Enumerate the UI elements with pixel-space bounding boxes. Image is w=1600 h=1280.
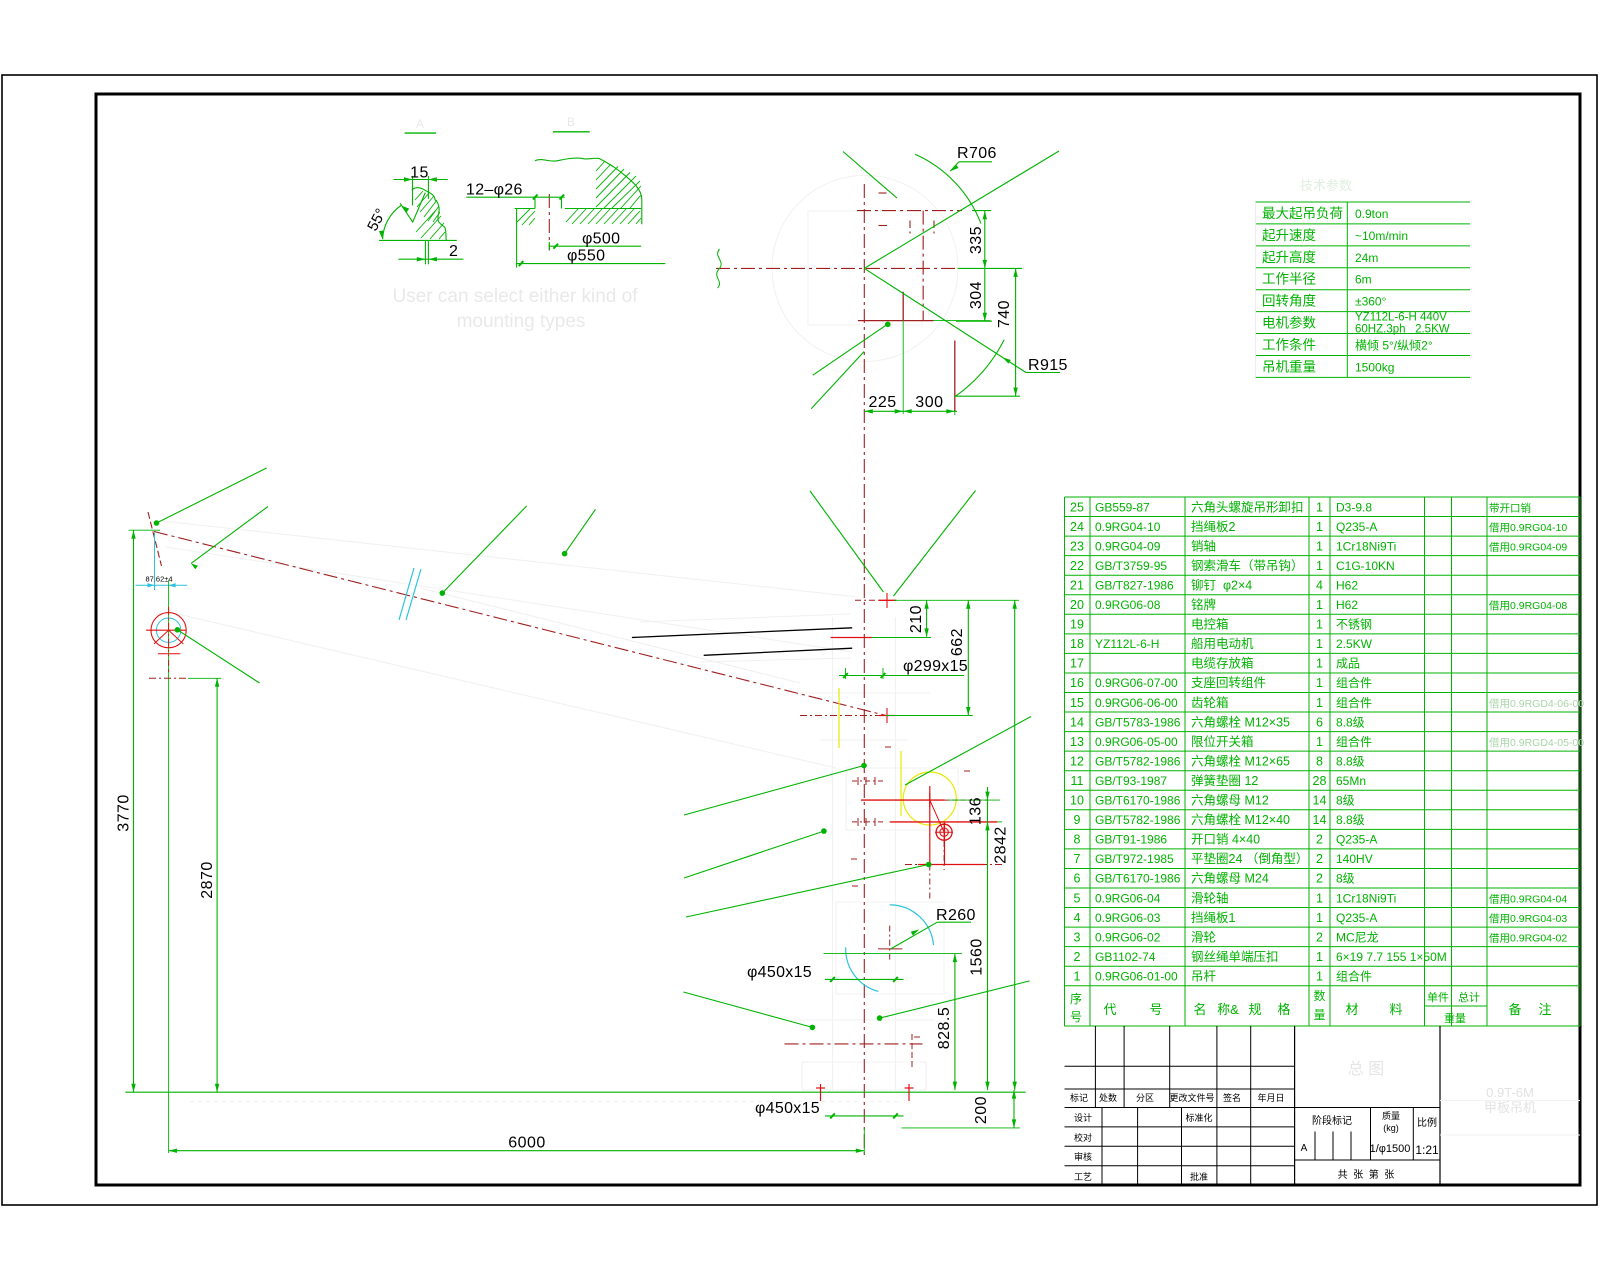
boom tip cross	[148, 512, 162, 566]
boom axis centerline	[154, 532, 886, 716]
svg-text:借用0.9RGD4-06-00: 借用0.9RGD4-06-00	[1489, 698, 1584, 710]
plan leader junction dot	[885, 322, 891, 328]
svg-text:1Cr18Ni9Ti: 1Cr18Ni9Ti	[1336, 891, 1396, 905]
pin hub circles	[936, 824, 952, 840]
svg-text:H62: H62	[1336, 598, 1358, 612]
svg-text:YZ112L-6-H 440V: YZ112L-6-H 440V	[1355, 312, 1447, 324]
svg-text:1: 1	[1316, 735, 1323, 749]
svg-text:14: 14	[1313, 794, 1327, 808]
svg-text:GB/T827-1986: GB/T827-1986	[1095, 578, 1174, 592]
svg-text:15: 15	[410, 165, 429, 182]
svg-text:共 张 第 张: 共 张 第 张	[1338, 1168, 1395, 1181]
plan sector line lower / R915 leader	[864, 268, 1026, 372]
svg-text:6m: 6m	[1355, 273, 1372, 287]
dim 304	[984, 268, 986, 321]
svg-text:借用0.9RG04-04: 借用0.9RG04-04	[1489, 893, 1567, 905]
svg-text:225: 225	[868, 394, 896, 411]
plan sector line upper	[864, 151, 1059, 268]
svg-text:R706: R706	[957, 145, 997, 162]
svg-text:(kg): (kg)	[1383, 1123, 1399, 1133]
svg-text:年月日: 年月日	[1257, 1092, 1284, 1103]
svg-text:借用0.9RG04-09: 借用0.9RG04-09	[1489, 541, 1567, 553]
svg-text:φ500: φ500	[582, 231, 620, 248]
svg-text:0.9RG06-03: 0.9RG06-03	[1095, 911, 1161, 925]
svg-text:23: 23	[1070, 539, 1084, 553]
flange: dim phi550	[517, 263, 666, 265]
weld detail: 55 deg arc	[383, 206, 401, 240]
svg-text:H62: H62	[1336, 578, 1358, 592]
svg-text:8: 8	[1074, 833, 1081, 847]
svg-text:19: 19	[1070, 618, 1084, 632]
boom break marks (cyan)	[399, 568, 414, 620]
weld detail: dim 2	[398, 258, 463, 260]
svg-text:挡绳板2: 挡绳板2	[1191, 520, 1236, 534]
ghost gearbox	[846, 768, 958, 830]
svg-text:13: 13	[1070, 735, 1084, 749]
flange: dim phi500	[550, 245, 642, 247]
svg-text:吊机重量: 吊机重量	[1262, 359, 1316, 374]
svg-text:料: 料	[1389, 1002, 1402, 1017]
dim phi450x15 upper	[825, 978, 904, 980]
svg-text:9: 9	[1074, 813, 1081, 827]
dim 662	[967, 600, 969, 715]
wire rope leader	[191, 507, 268, 564]
R706 label	[950, 162, 959, 171]
svg-text:0.9RG06-02: 0.9RG06-02	[1095, 930, 1161, 944]
dim 225 / 300	[864, 410, 957, 412]
svg-text:号: 号	[1070, 1010, 1082, 1024]
weld detail: dim 15	[393, 179, 447, 181]
svg-text:210: 210	[908, 605, 925, 633]
plan horizontal centerline	[716, 267, 958, 269]
svg-text:弹簧垫圈 12: 弹簧垫圈 12	[1191, 773, 1258, 788]
svg-text:~10m/min: ~10m/min	[1355, 229, 1408, 243]
svg-text:平垫圈24 （倒角型）: 平垫圈24 （倒角型）	[1191, 851, 1308, 866]
svg-text:滑轮: 滑轮	[1191, 930, 1216, 944]
svg-text:铆钉 φ2×4: 铆钉 φ2×4	[1191, 577, 1252, 592]
svg-text:1/φ1500: 1/φ1500	[1370, 1143, 1411, 1155]
svg-text:规: 规	[1248, 1002, 1261, 1017]
svg-text:代: 代	[1103, 1002, 1116, 1017]
svg-text:GB/T5782-1986: GB/T5782-1986	[1095, 813, 1181, 827]
svg-text:65Mn: 65Mn	[1336, 774, 1366, 788]
flange: bolt hole edges	[534, 196, 536, 209]
svg-text:组合件: 组合件	[1336, 734, 1372, 749]
flange: top freehand outline	[535, 158, 599, 161]
svg-text:吊杆: 吊杆	[1191, 969, 1217, 983]
svg-text:1: 1	[1316, 969, 1323, 983]
plan callout leaders	[813, 324, 887, 375]
R915 label	[1026, 372, 1060, 374]
boom tip callout dot	[154, 520, 160, 526]
svg-text:六角螺栓 M12×40: 六角螺栓 M12×40	[1191, 812, 1290, 827]
boom pivot cross	[800, 715, 900, 717]
boom callout leaders	[440, 590, 446, 596]
svg-text:7: 7	[1074, 852, 1081, 866]
dim 200	[1013, 1090, 1015, 1128]
section label A underline	[405, 132, 437, 134]
svg-text:8.8级: 8.8级	[1336, 754, 1365, 768]
svg-text:GB/T5782-1986: GB/T5782-1986	[1095, 754, 1181, 768]
motor outline (black)	[632, 628, 852, 638]
sheave lower red dashes	[158, 653, 180, 655]
svg-text:16: 16	[1070, 676, 1084, 690]
svg-text:2: 2	[1316, 852, 1323, 866]
R260 center cross	[889, 926, 891, 962]
svg-text:1: 1	[1316, 950, 1323, 964]
svg-text:YZ112L-6-H: YZ112L-6-H	[1095, 637, 1159, 651]
svg-text:0.9RG04-09: 0.9RG04-09	[1095, 539, 1161, 553]
svg-text:335: 335	[968, 226, 985, 254]
svg-text:24m: 24m	[1355, 251, 1378, 265]
title block grid	[1123, 1026, 1125, 1108]
svg-text:A: A	[416, 117, 424, 131]
svg-text:2: 2	[449, 243, 458, 260]
svg-text:0.9RG06-06-00: 0.9RG06-06-00	[1095, 696, 1178, 710]
dim 2870	[149, 677, 188, 679]
svg-text:开口销 4×40: 开口销 4×40	[1191, 833, 1260, 847]
svg-text:GB/T93-1987: GB/T93-1987	[1095, 774, 1167, 788]
svg-text:备: 备	[1508, 1002, 1521, 1017]
flange: hatch plate right	[566, 209, 578, 222]
svg-text:标准化: 标准化	[1185, 1112, 1212, 1123]
svg-text:φ450x15: φ450x15	[747, 964, 812, 981]
svg-text:2: 2	[1316, 930, 1323, 944]
mast center below deck	[863, 1128, 865, 1154]
svg-text:带开口销: 带开口销	[1489, 501, 1531, 514]
svg-text:6000: 6000	[508, 1135, 546, 1152]
svg-text:1: 1	[1316, 500, 1323, 514]
svg-text:总计: 总计	[1458, 990, 1480, 1004]
gear output centerline	[905, 864, 1005, 866]
svg-text:8: 8	[1316, 754, 1323, 768]
dim phi450x15 lower	[825, 1115, 904, 1117]
ghost slew circle (plan)	[772, 175, 958, 361]
svg-text:R915: R915	[1028, 357, 1068, 374]
svg-text:1: 1	[1316, 696, 1323, 710]
svg-text:分区: 分区	[1136, 1093, 1154, 1103]
svg-text:8.8级: 8.8级	[1336, 813, 1365, 827]
inner border frame	[96, 94, 1580, 1185]
svg-text:六角螺母 M12: 六角螺母 M12	[1191, 794, 1269, 808]
dim phi299x15	[839, 675, 964, 677]
spec table grid	[1255, 201, 1470, 203]
dim 828.5	[954, 954, 956, 1091]
mast top extension line	[894, 599, 1019, 601]
svg-text:工艺: 工艺	[1074, 1172, 1092, 1182]
svg-text:14: 14	[1313, 813, 1327, 827]
dim 210	[926, 600, 928, 637]
small offset dim (cyan)	[135, 584, 187, 586]
svg-text:4: 4	[1316, 578, 1323, 592]
svg-text:1: 1	[1316, 559, 1323, 573]
hook rope extension line	[168, 580, 170, 1153]
svg-text:0.9T-6M: 0.9T-6M	[1486, 1085, 1534, 1100]
svg-text:8.8级: 8.8级	[1336, 715, 1365, 729]
svg-text:钢丝绳单端压扣: 钢丝绳单端压扣	[1191, 950, 1279, 964]
svg-text:D3-9.8: D3-9.8	[1336, 500, 1372, 514]
svg-text:材: 材	[1345, 1002, 1358, 1017]
R260 arc (cyan)	[890, 905, 934, 945]
svg-text:22: 22	[1070, 559, 1084, 573]
svg-text:φ299x15: φ299x15	[903, 658, 968, 675]
weld detail: web cap	[412, 188, 427, 191]
svg-text:1: 1	[1316, 911, 1323, 925]
svg-text:1560: 1560	[969, 938, 986, 976]
pivot callout V leaders	[810, 491, 883, 592]
svg-text:限位开关箱: 限位开关箱	[1191, 734, 1254, 749]
svg-text:136: 136	[968, 797, 985, 825]
svg-text:注: 注	[1538, 1002, 1551, 1017]
base flange centerline	[785, 1043, 923, 1045]
svg-text:电缆存放箱: 电缆存放箱	[1191, 656, 1254, 671]
mast top cross	[878, 599, 896, 601]
svg-text:6: 6	[1074, 872, 1081, 886]
svg-text:0.9RG06-01-00: 0.9RG06-01-00	[1095, 969, 1178, 983]
svg-text:校对: 校对	[1074, 1132, 1092, 1143]
svg-text:60HZ.3ph 2.5KW: 60HZ.3ph 2.5KW	[1355, 324, 1450, 336]
ghost motor body	[640, 614, 850, 622]
flange: plate top surface	[565, 208, 642, 210]
winch callout leaders	[861, 763, 867, 769]
drum circle (yellow)	[903, 772, 956, 825]
svg-text:0.9RG04-10: 0.9RG04-10	[1095, 520, 1161, 534]
svg-text:2: 2	[1316, 872, 1323, 886]
svg-text:批准: 批准	[1190, 1171, 1208, 1182]
svg-text:304: 304	[968, 281, 985, 309]
ghost mast tube	[832, 617, 834, 1090]
dim 136	[987, 787, 989, 835]
svg-text:1: 1	[1316, 598, 1323, 612]
svg-text:12–φ26: 12–φ26	[466, 182, 523, 199]
svg-text:船用电动机: 船用电动机	[1191, 637, 1254, 651]
svg-text:4: 4	[1074, 911, 1081, 925]
svg-text:铭牌: 铭牌	[1191, 597, 1216, 612]
pivot extension line	[886, 715, 973, 717]
section label B underline	[553, 131, 590, 133]
svg-text:起升速度: 起升速度	[1262, 228, 1316, 243]
svg-text:2842: 2842	[993, 826, 1010, 864]
sheave axis cyan centerline	[154, 533, 156, 591]
svg-text:工作条件: 工作条件	[1262, 337, 1316, 353]
svg-text:662: 662	[949, 628, 966, 656]
svg-text:1: 1	[1316, 520, 1323, 534]
weld detail: hatch upper	[415, 191, 445, 239]
svg-text:借用0.9RG04-03: 借用0.9RG04-03	[1489, 913, 1567, 925]
rope path (yellow)	[838, 688, 840, 748]
svg-text:3: 3	[1074, 930, 1081, 944]
svg-text:不锈钢: 不锈钢	[1336, 618, 1372, 632]
svg-text:审核: 审核	[1074, 1151, 1092, 1162]
R915 arc	[954, 340, 1004, 397]
weld detail: bottom plate line	[379, 239, 457, 241]
svg-text:C1G-10KN: C1G-10KN	[1336, 559, 1395, 573]
svg-text:1: 1	[1316, 539, 1323, 553]
svg-text:21: 21	[1070, 578, 1084, 592]
sheave circle	[151, 613, 186, 648]
flange: hole centerline	[548, 194, 550, 251]
svg-text:1Cr18Ni9Ti: 1Cr18Ni9Ti	[1336, 539, 1396, 553]
svg-text:24: 24	[1070, 520, 1084, 534]
svg-text:0.9ton: 0.9ton	[1355, 207, 1388, 221]
svg-text:六角螺母 M24: 六角螺母 M24	[1191, 872, 1269, 886]
R706 arc	[915, 154, 981, 223]
mast vertical centerline	[863, 184, 865, 1158]
svg-text:销轴: 销轴	[1191, 538, 1216, 553]
weld detail: root gap lines	[424, 240, 426, 264]
gear axis red line	[890, 821, 998, 823]
svg-text:18: 18	[1070, 637, 1084, 651]
svg-text:GB/T5783-1986: GB/T5783-1986	[1095, 715, 1181, 729]
svg-text:10: 10	[1070, 794, 1084, 808]
svg-text:φ550: φ550	[567, 248, 605, 265]
svg-text:1: 1	[1316, 618, 1323, 632]
winch upper centerline crosses	[852, 780, 886, 782]
svg-text:GB1102-74: GB1102-74	[1095, 950, 1156, 964]
ghost base plate	[802, 1062, 926, 1090]
svg-text:MC尼龙: MC尼龙	[1336, 930, 1379, 944]
svg-text:φ450x15: φ450x15	[755, 1100, 820, 1117]
svg-text:8级: 8级	[1336, 794, 1355, 808]
svg-text:8级: 8级	[1336, 872, 1355, 886]
svg-text:总 图: 总 图	[1348, 1060, 1384, 1078]
svg-text:6×19 7.7 155 1×50M: 6×19 7.7 155 1×50M	[1336, 950, 1447, 964]
svg-text:设计: 设计	[1074, 1112, 1092, 1123]
svg-text:名: 名	[1193, 1002, 1206, 1017]
svg-text:2870: 2870	[199, 861, 216, 899]
svg-text:28: 28	[1313, 774, 1327, 788]
svg-text:数: 数	[1313, 988, 1325, 1003]
R260 label	[891, 922, 937, 949]
plan ext line at center level	[958, 267, 1023, 269]
svg-text:组合件: 组合件	[1336, 968, 1372, 983]
svg-text:±360°: ±360°	[1355, 295, 1387, 309]
svg-text:GB/T91-1986: GB/T91-1986	[1095, 833, 1167, 847]
svg-text:六角螺栓 M12×65: 六角螺栓 M12×65	[1191, 753, 1290, 768]
svg-text:成品: 成品	[1336, 657, 1360, 671]
svg-text:比例: 比例	[1417, 1116, 1437, 1129]
flange: fillet outline right	[599, 158, 642, 224]
flange: label 12-phi26	[466, 196, 564, 198]
flange: hatch ring section	[517, 161, 641, 225]
svg-text:GB/T6170-1986: GB/T6170-1986	[1095, 872, 1181, 886]
svg-text:单件: 单件	[1427, 991, 1449, 1004]
svg-text:2: 2	[1316, 833, 1323, 847]
svg-text:mounting types: mounting types	[457, 311, 586, 332]
dim 1560	[987, 822, 989, 1090]
deck baseline	[125, 1091, 1025, 1093]
svg-text:借用0.9RGD4-05-00: 借用0.9RGD4-05-00	[1489, 737, 1584, 749]
svg-text:GB/T3759-95: GB/T3759-95	[1095, 559, 1167, 573]
sheave callout	[175, 627, 181, 633]
svg-text:1: 1	[1316, 676, 1323, 690]
svg-text:回转角度: 回转角度	[1262, 294, 1316, 309]
svg-text:1: 1	[1316, 657, 1323, 671]
svg-text:12: 12	[1070, 754, 1084, 768]
svg-text:5: 5	[1074, 891, 1081, 905]
break squiggle	[717, 249, 721, 288]
svg-text:称&: 称&	[1217, 1002, 1239, 1017]
svg-text:借用0.9RG04-10: 借用0.9RG04-10	[1489, 522, 1567, 534]
svg-text:15: 15	[1070, 696, 1084, 710]
svg-text:0.9RG06-04: 0.9RG06-04	[1095, 891, 1161, 905]
svg-text:挡绳板1: 挡绳板1	[1191, 911, 1236, 925]
svg-text:6: 6	[1316, 715, 1323, 729]
weld detail: hatch lower	[416, 210, 436, 232]
svg-text:25: 25	[1070, 500, 1084, 514]
svg-text:A: A	[1301, 1143, 1308, 1154]
svg-text:14: 14	[1070, 715, 1084, 729]
svg-text:号: 号	[1149, 1002, 1162, 1017]
svg-text:组合件: 组合件	[1336, 695, 1372, 710]
svg-text:GB/T6170-1986: GB/T6170-1986	[1095, 794, 1181, 808]
svg-text:2.5KW: 2.5KW	[1336, 637, 1373, 651]
svg-text:0.9RG06-07-00: 0.9RG06-07-00	[1095, 676, 1178, 690]
flange: hatch plate left	[517, 209, 530, 222]
svg-text:Q235-A: Q235-A	[1336, 833, 1377, 847]
winch axis red line	[861, 799, 945, 801]
svg-text:重量: 重量	[1444, 1011, 1466, 1025]
svg-text:甲板吊机: 甲板吊机	[1484, 1100, 1536, 1115]
svg-text:钢索滑车（带吊钩）: 钢索滑车（带吊钩）	[1191, 558, 1304, 573]
BOM header weight split	[1425, 1005, 1488, 1007]
weld detail: wavy right edge	[426, 191, 446, 240]
svg-text:序: 序	[1070, 991, 1082, 1006]
motor axis red line	[831, 637, 872, 639]
svg-text:3770: 3770	[116, 794, 133, 832]
svg-text:处数: 处数	[1099, 1092, 1117, 1103]
svg-text:140HV: 140HV	[1336, 852, 1373, 866]
svg-text:电控箱: 电控箱	[1191, 617, 1229, 632]
svg-text:300: 300	[915, 394, 943, 411]
svg-text:17: 17	[1070, 657, 1084, 671]
svg-text:200: 200	[973, 1096, 990, 1124]
gearbox red verticals	[929, 786, 931, 865]
small red marks	[851, 858, 857, 860]
svg-text:齿轮箱: 齿轮箱	[1191, 695, 1229, 710]
svg-text:工作半径: 工作半径	[1262, 272, 1316, 287]
svg-text:GB/T972-1985: GB/T972-1985	[1095, 852, 1174, 866]
svg-text:0.9RG06-08: 0.9RG06-08	[1095, 598, 1161, 612]
svg-text:最大起吊负荷: 最大起吊负荷	[1262, 206, 1343, 221]
dim 2842	[1014, 600, 1016, 1090]
svg-text:标记: 标记	[1070, 1092, 1088, 1103]
svg-text:1:21: 1:21	[1415, 1143, 1439, 1157]
svg-text:11: 11	[1071, 774, 1084, 788]
svg-text:量: 量	[1313, 1008, 1325, 1022]
svg-text:滑轮轴: 滑轮轴	[1191, 890, 1229, 905]
svg-text:Q235-A: Q235-A	[1336, 520, 1377, 534]
svg-text:六角螺栓 M12×35: 六角螺栓 M12×35	[1191, 714, 1290, 729]
flange: left edge	[516, 209, 518, 268]
svg-text:2: 2	[1074, 950, 1081, 964]
svg-text:横倾 5°/纵倾2°: 横倾 5°/纵倾2°	[1355, 339, 1433, 353]
svg-text:GB559-87: GB559-87	[1095, 500, 1150, 514]
svg-text:User can select either kind of: User can select either kind of	[392, 286, 638, 307]
svg-text:更改文件号: 更改文件号	[1169, 1092, 1214, 1103]
BOM grid	[1065, 496, 1581, 498]
svg-text:技术参数: 技术参数	[1300, 178, 1352, 193]
dim 740	[1015, 268, 1017, 396]
svg-text:六角头螺旋吊形卸扣: 六角头螺旋吊形卸扣	[1191, 499, 1304, 514]
svg-text:电机参数: 电机参数	[1262, 315, 1316, 331]
sheave inner circle (cyan)	[156, 618, 180, 642]
plan base frame hidden edges (red dash-dot)	[857, 210, 962, 212]
svg-text:格: 格	[1277, 1002, 1290, 1017]
svg-text:B: B	[567, 115, 575, 129]
svg-text:740: 740	[996, 300, 1013, 328]
svg-text:1: 1	[1316, 891, 1323, 905]
